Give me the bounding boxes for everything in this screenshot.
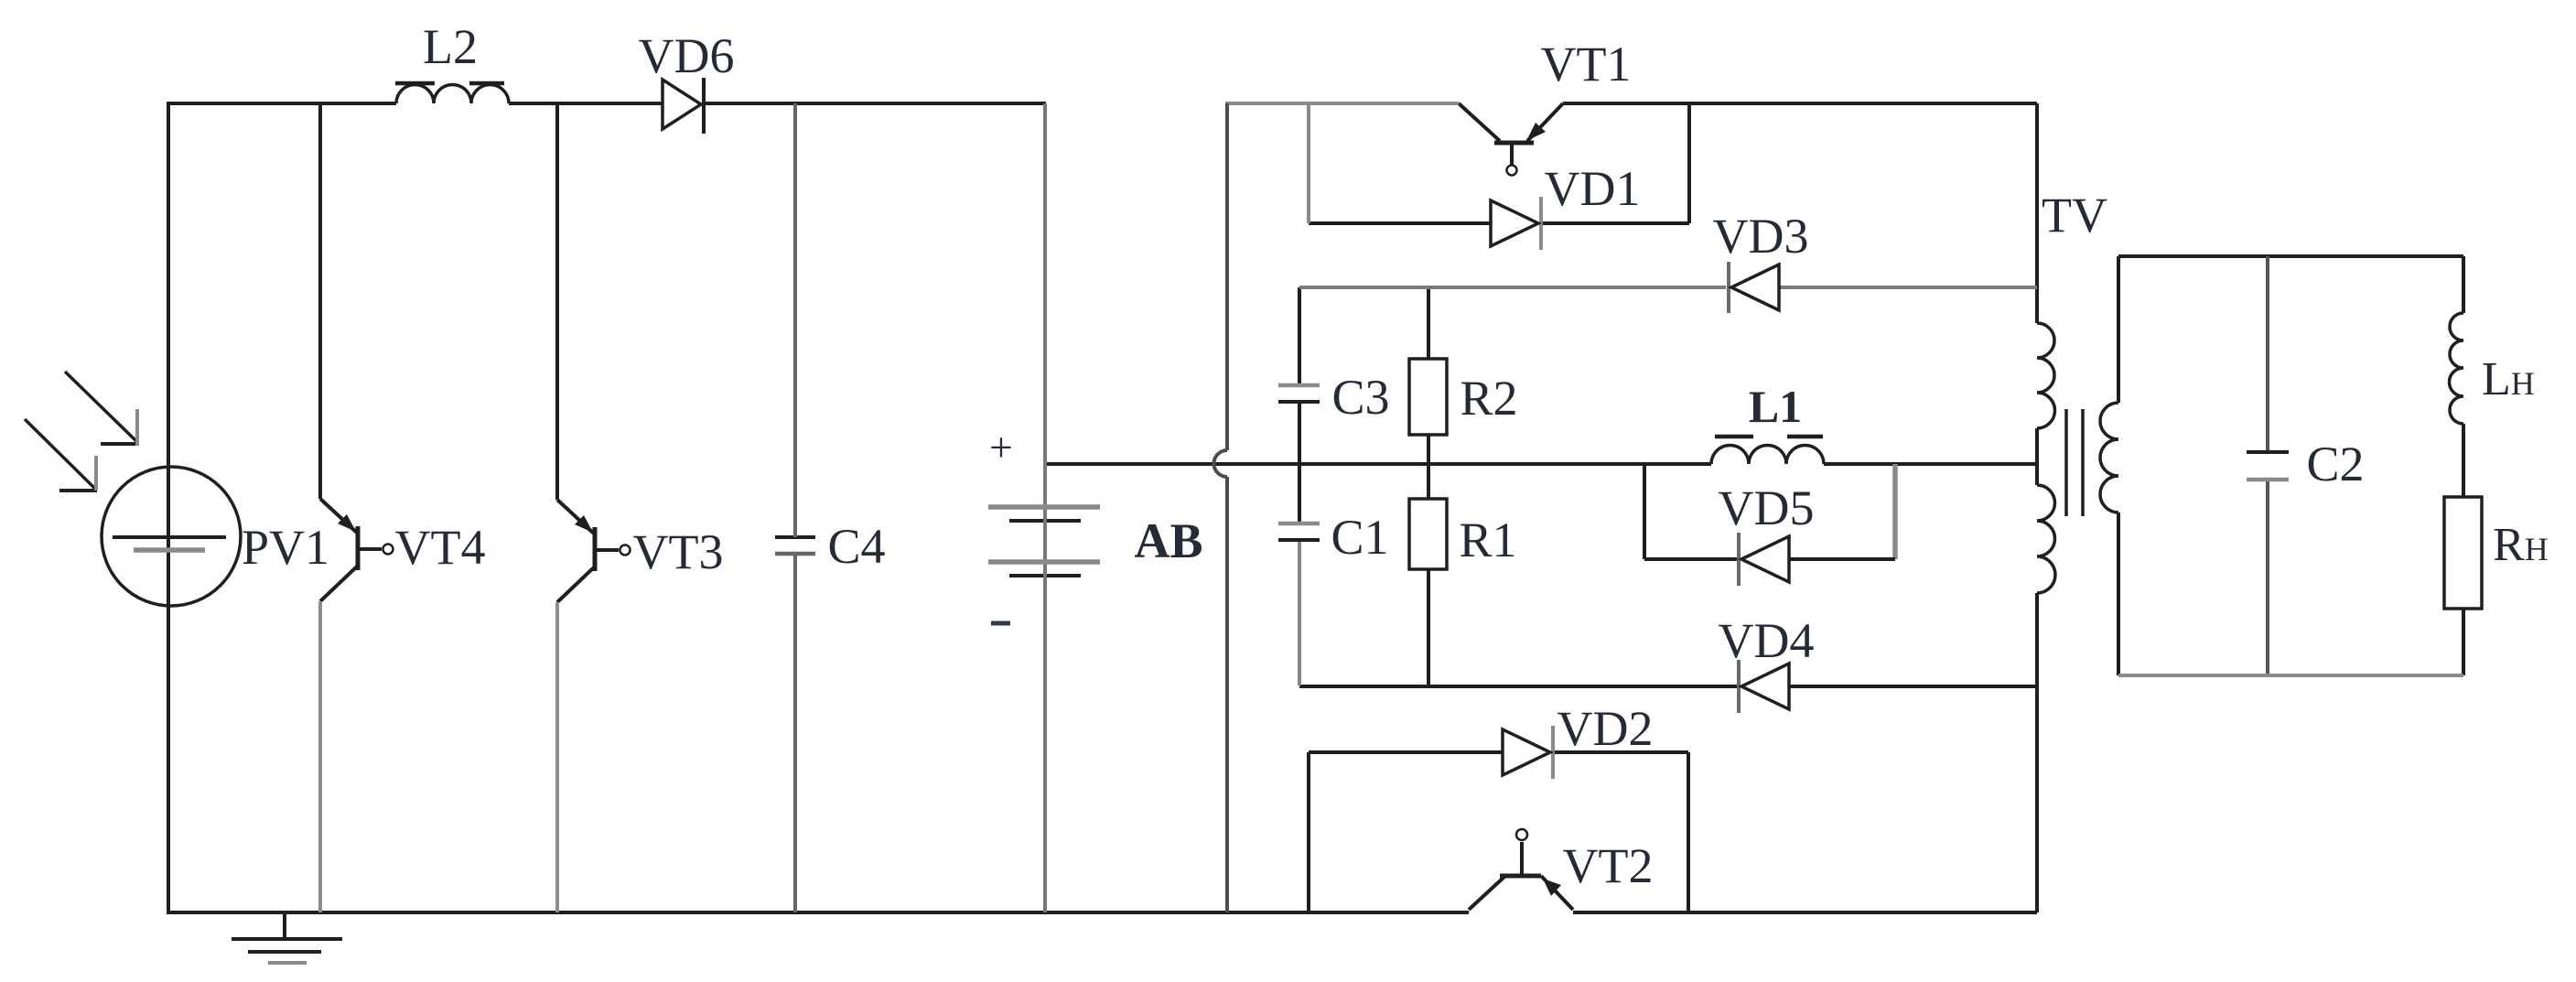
svg-text:VT4: VT4 (395, 520, 486, 575)
svg-text:VD3: VD3 (1713, 209, 1809, 264)
svg-text:R2: R2 (1460, 371, 1517, 426)
svg-text:R1: R1 (1459, 513, 1516, 567)
svg-text:AB: AB (1134, 513, 1202, 568)
svg-text:VD6: VD6 (639, 28, 735, 83)
svg-text:VD5: VD5 (1719, 480, 1815, 535)
svg-text:C3: C3 (1331, 370, 1389, 425)
svg-text:VT3: VT3 (633, 524, 724, 579)
svg-text:VD2: VD2 (1557, 701, 1654, 756)
svg-text:L1: L1 (1749, 381, 1802, 432)
svg-text:L2: L2 (423, 19, 478, 74)
svg-text:PV1: PV1 (242, 520, 329, 575)
svg-text:VD4: VD4 (1719, 613, 1815, 668)
svg-text:C4: C4 (827, 519, 885, 574)
svg-text:+: + (989, 424, 1013, 470)
svg-text:VT2: VT2 (1563, 838, 1654, 893)
svg-text:VD1: VD1 (1545, 161, 1641, 216)
svg-text:VT1: VT1 (1541, 37, 1632, 92)
svg-text:C2: C2 (2306, 437, 2364, 491)
svg-text:TV: TV (2042, 188, 2107, 243)
svg-text:C1: C1 (1331, 510, 1388, 565)
